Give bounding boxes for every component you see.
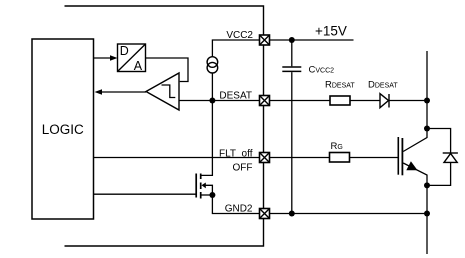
wire current source to DESAT node — [211, 73, 213, 101]
wire D/A output to comparator reference input — [146, 58, 189, 82]
pin FLT_off/OFF — [260, 153, 270, 163]
diode DDESAT — [380, 94, 389, 108]
wire DDESAT to collector node — [389, 100, 427, 102]
svg-text:FLT off: FLT off — [219, 149, 253, 160]
chip outline (gate driver boundary) — [65, 6, 264, 246]
resistor RDESAT — [330, 96, 350, 105]
wire DESAT internal (comparator to pin) — [179, 100, 260, 102]
arrowhead into D/A — [110, 55, 118, 61]
svg-text:OFF: OFF — [233, 162, 253, 173]
pin VCC2 — [260, 35, 270, 45]
capacitor CVCC2 — [282, 67, 301, 71]
wire CVCC2 bottom lead to GND2 rail — [291, 72, 293, 213]
transistor Q1 (DESAT discharge MOSFET) — [196, 174, 201, 199]
node +15V / CVCC2 junction — [289, 37, 295, 43]
wire MOSFET source stub — [201, 194, 213, 196]
svg-text:DESAT: DESAT — [219, 91, 252, 102]
comparator U2 (DESAT, with hysteresis) — [146, 73, 179, 110]
node DESAT internal junction — [209, 98, 215, 104]
svg-text:A: A — [134, 59, 143, 73]
transistor Q2 (IGBT) — [398, 137, 402, 175]
wire LOGIC to FLT_off pin — [94, 157, 260, 159]
node GND2/emitter junction — [424, 211, 430, 217]
wire +15V rail — [270, 39, 354, 41]
resistor RG — [330, 153, 350, 163]
node GND2/CVCC2 junction — [289, 211, 295, 217]
wire MOSFET source to GND2 pin — [212, 195, 259, 214]
D/A converter block — [118, 44, 146, 72]
svg-text:LOGIC: LOGIC — [42, 122, 84, 137]
svg-text:D: D — [120, 44, 129, 58]
wire DESAT pin to RDESAT — [270, 100, 331, 102]
IGBT emitter arrow — [406, 161, 417, 170]
pin GND2 — [260, 209, 270, 219]
IGBT emitter lead — [403, 163, 427, 185]
IGBT collector lead — [403, 129, 427, 152]
wire FLT_off pin to RG — [270, 157, 330, 159]
svg-text:VCC2: VCC2 — [226, 30, 253, 41]
wire GND2 rail — [270, 213, 428, 215]
current source I1 — [207, 57, 218, 73]
pin DESAT — [260, 96, 270, 106]
wire comparator output to LOGIC — [100, 91, 146, 93]
wire collector stub up — [426, 51, 428, 129]
wire freewheel diode branch top — [427, 129, 451, 153]
LOGIC block U1 — [32, 39, 94, 219]
wire LOGIC to D/A converter — [94, 57, 112, 59]
node collector/diode-branch junction — [424, 126, 430, 132]
wire MOSFET body to source — [206, 185, 213, 195]
diode D1 (freewheeling) — [443, 153, 458, 162]
svg-text:+15V: +15V — [315, 24, 347, 39]
wire freewheel diode branch bottom — [427, 162, 451, 185]
wire emitter down to GND2 rail and output stub — [426, 185, 428, 254]
MOSFET body arrow — [202, 183, 206, 189]
svg-text:GND2: GND2 — [225, 204, 253, 215]
arrowhead into LOGIC — [95, 89, 103, 95]
node emitter junction — [424, 182, 430, 188]
node MOSFET source junction — [209, 192, 215, 198]
wire VCC2 pin to current source — [212, 40, 259, 57]
wire RDESAT to DDESAT — [350, 100, 380, 102]
wire LOGIC to MOSFET gate — [94, 193, 196, 195]
wire CVCC2 top lead — [291, 40, 293, 66]
wire RG to IGBT gate — [350, 157, 398, 159]
node DESAT/collector junction — [424, 98, 430, 104]
wire DESAT node down to MOSFET drain — [201, 101, 213, 176]
